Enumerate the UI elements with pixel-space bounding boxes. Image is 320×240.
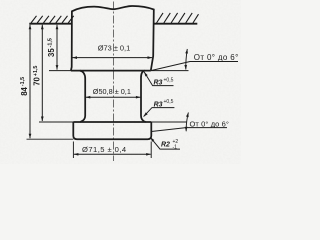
draft angle callout bottom: horizontal ray (151, 121, 187, 123)
datum surface line right (153, 23, 197, 25)
svg-text:От 0° до 6°: От 0° до 6° (190, 120, 230, 129)
leader R3 lower (144, 108, 175, 117)
datum surface line left (29, 23, 72, 25)
svg-text:От 0° до 6°: От 0° до 6° (194, 53, 239, 62)
draft angle callout top: horizontal ray (151, 70, 189, 72)
dimension line Ø71,5 (74, 153, 151, 155)
svg-text:Ø73 ± 0,1: Ø73 ± 0,1 (98, 44, 130, 53)
label 35-1,5 (47, 38, 56, 57)
draft angle callout bottom: slanted ray + shelf (151, 128, 227, 132)
dimension 35 vertical line (56, 25, 58, 70)
part flange top edge (73, 121, 151, 123)
paper grain (0, 0, 241, 164)
part outline: top wave and side edges (71, 6, 154, 71)
label 70+1,5 (33, 66, 42, 86)
part neck left: fillet, waist, fillet (80, 71, 85, 122)
hatching right (157, 13, 199, 23)
centerline (112, 2, 114, 162)
draft angle callout top: slanted ray + shelf (151, 62, 238, 71)
svg-text:Ø50,8 ± 0,1: Ø50,8 ± 0,1 (93, 87, 131, 96)
label 84-1,5 (20, 77, 29, 96)
label R3+0,5 upper (154, 77, 174, 86)
dimension line Ø50,8 (86, 96, 141, 98)
svg-text:R3: R3 (154, 80, 163, 87)
dimension 70 vertical line (41, 25, 43, 121)
leader R3 upper (144, 72, 173, 86)
dimension 84 vertical line (29, 25, 31, 139)
draft angle callout bottom: arc (186, 113, 188, 132)
part shoulder edge (lip underside) (71, 70, 151, 72)
leader R2 with shelf (150, 137, 180, 149)
part neck right: fillet, waist, fillet (141, 71, 146, 122)
hatching left (31, 16, 74, 23)
part flange sides and bottom (73, 122, 151, 139)
svg-text:Ø71,5 ± 0,4: Ø71,5 ± 0,4 (82, 145, 127, 154)
extension line for 70 (flange top) (39, 121, 73, 123)
svg-text:+1,5: +1,5 (33, 66, 39, 77)
svg-text:-1: -1 (173, 144, 178, 150)
svg-text:+0,5: +0,5 (164, 77, 174, 83)
svg-text:84: 84 (20, 86, 29, 95)
svg-text:R2: R2 (161, 142, 170, 149)
label R2 +2 -1 (161, 139, 178, 151)
svg-text:+0,5: +0,5 (164, 99, 174, 105)
extension line for 35 (lip plane) (49, 70, 71, 72)
svg-text:-1,5: -1,5 (48, 38, 54, 47)
draft angle callout top: arc (186, 49, 188, 70)
extension lines Ø71,5 (72, 142, 74, 159)
svg-text:R3: R3 (154, 101, 163, 108)
svg-text:70: 70 (33, 76, 42, 85)
svg-text:35: 35 (47, 48, 56, 57)
label R3+0,5 lower (154, 99, 174, 108)
svg-text:-1,5: -1,5 (20, 77, 26, 86)
dimension line Ø73 (73, 57, 153, 59)
extension line for 84 (flange bottom) (27, 138, 74, 140)
